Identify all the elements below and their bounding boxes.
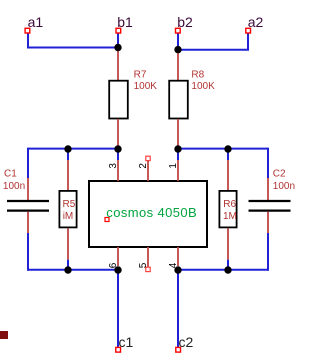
resistor R5 body [59,191,76,228]
junction bottom rail R6 [224,266,231,273]
terminal b2 [176,28,181,33]
svg-text:100n: 100n [273,181,295,192]
resistor R5 bottom stub blue [67,260,69,270]
IC pin 1 stub blue [177,149,179,160]
svg-text:c2: c2 [179,334,194,350]
capacitor C2 pin top [267,178,269,200]
resistor R6 top stub blue [227,149,229,160]
IC pin 2 lead [147,161,149,181]
capacitor C1 pin top [27,178,29,200]
junction top rail R5 [64,145,71,152]
junction bottom rail pin4 [174,266,181,273]
junction bottom rail R5 [64,266,71,273]
terminal a1 [25,28,30,33]
junction bottom rail pin6 [114,266,121,273]
terminal c1 [116,347,121,352]
wire a1-b1 horizontal [27,47,118,49]
svg-text:R7: R7 [134,69,147,80]
IC pin 5 marker [146,267,150,271]
resistor R5 pin top [67,160,69,190]
svg-text:100K: 100K [134,81,158,92]
resistor R8 pin top [177,50,179,80]
svg-text:C1: C1 [4,169,17,180]
junction top rail pin1 [174,145,181,152]
svg-text:R5: R5 [63,199,76,210]
IC pin 1 lead [177,160,179,181]
capacitor C2 top lead blue [267,148,269,178]
resistor R6 bottom stub blue [227,260,229,270]
svg-text:a1: a1 [28,14,44,30]
svg-text:1M: 1M [223,211,237,222]
svg-text:R8: R8 [191,69,204,80]
wire top rail left segment [28,148,118,150]
wire right vertical rail lower [267,233,269,271]
capacitor C1 plate top [7,200,49,202]
svg-text:3: 3 [108,163,119,169]
junction top rail R6 [224,145,231,152]
node marker bottom-left [0,331,8,339]
resistor R8 pin bottom [177,119,179,149]
op-amp U1 IC body cosmos 4050B [89,181,207,247]
wire bottom rail right segment [178,269,268,271]
capacitor C1 pin bottom [27,212,29,233]
resistor R5 pin bottom [67,228,69,259]
IC pin 3 lead [117,160,119,181]
svg-text:1: 1 [168,163,179,169]
wire a2 vertical stub [247,33,249,50]
capacitor C1 top lead blue [27,148,29,178]
resistor R6 pin bottom [227,228,229,259]
resistor R7 body [109,81,128,119]
IC pin 3 stub blue [117,149,119,160]
wire b2-a2 horizontal [178,49,249,51]
junction b1 [114,44,121,51]
svg-text:2: 2 [138,163,149,169]
capacitor C2 pin bottom [267,212,269,233]
terminal c2 [176,347,181,352]
wire c2 drop [177,270,179,348]
svg-text:R6: R6 [223,199,236,210]
svg-text:100n: 100n [3,181,25,192]
terminal a2 [246,28,251,33]
IC pin 5 lead [147,247,149,267]
capacitor C1 plate bottom [7,210,49,212]
junction top rail pin3 [114,145,121,152]
IC pin 2 marker [146,156,150,160]
svg-text:a2: a2 [248,14,264,30]
svg-text:5: 5 [138,262,149,268]
svg-text:100K: 100K [191,81,215,92]
IC origin marker [105,218,109,222]
IC pin 6 lead [117,247,119,266]
svg-text:b1: b1 [117,14,133,30]
IC pin 4 lead [177,247,179,266]
wire c1 drop [117,270,119,348]
resistor R7 pin top [117,48,119,81]
resistor R5 top stub blue [67,149,69,160]
resistor R6 pin top [227,160,229,190]
capacitor C2 plate top [249,200,291,202]
capacitor C2 plate bottom [249,210,291,212]
svg-text:C2: C2 [273,169,286,180]
resistor R6 body [219,191,236,228]
wire b2 vertical stub [177,33,179,50]
svg-text:c1: c1 [119,334,134,350]
wire top rail right segment [178,148,268,150]
junction b2 [174,46,181,53]
wire left vertical rail lower [27,233,29,271]
svg-text:iM: iM [63,211,74,222]
wire b1 vertical stub [117,33,119,48]
resistor R7 pin bottom [117,119,119,149]
svg-text:cosmos 4050B: cosmos 4050B [106,205,197,220]
wire bottom rail left segment [28,269,118,271]
svg-text:b2: b2 [177,14,193,30]
terminal b1 [116,28,121,33]
wire a1 vertical stub [27,33,29,48]
resistor R8 body [169,81,188,119]
